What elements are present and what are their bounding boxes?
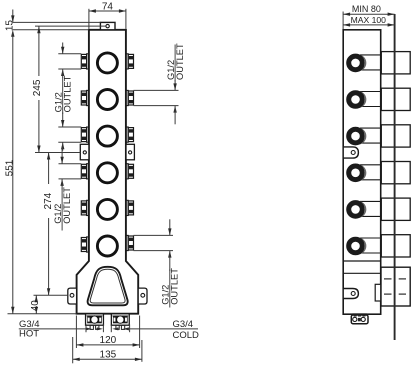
- svg-text:OUTLET: OUTLET: [170, 268, 180, 305]
- svg-text:135: 135: [100, 350, 117, 361]
- svg-text:OUTLET: OUTLET: [62, 187, 72, 224]
- svg-text:MIN 80: MIN 80: [352, 4, 381, 14]
- svg-text:OUTLET: OUTLET: [62, 75, 72, 112]
- svg-text:MAX 100: MAX 100: [351, 15, 387, 25]
- svg-text:74: 74: [102, 1, 114, 12]
- svg-text:HOT: HOT: [19, 329, 39, 340]
- svg-text:120: 120: [100, 335, 117, 346]
- svg-text:551: 551: [5, 159, 16, 176]
- svg-text:245: 245: [32, 79, 43, 96]
- svg-text:COLD: COLD: [173, 330, 200, 341]
- svg-text:OUTLET: OUTLET: [175, 43, 185, 80]
- svg-text:40: 40: [30, 300, 41, 312]
